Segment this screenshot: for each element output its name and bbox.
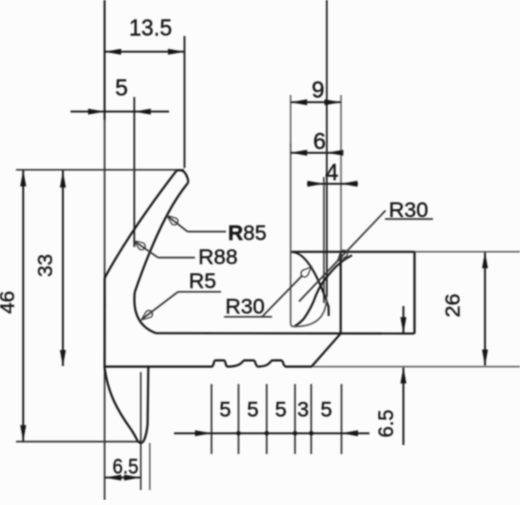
svg-text:6.5: 6.5 [375, 410, 398, 438]
svg-text:5: 5 [321, 399, 333, 422]
svg-text:33: 33 [34, 254, 57, 277]
svg-text:4: 4 [326, 159, 339, 185]
svg-text:3: 3 [297, 399, 309, 422]
svg-text:5: 5 [115, 75, 128, 101]
svg-text:46: 46 [0, 291, 19, 314]
svg-text:9: 9 [312, 77, 325, 103]
svg-text:5: 5 [275, 399, 287, 422]
svg-text:26: 26 [442, 294, 465, 318]
svg-text:5: 5 [219, 399, 231, 422]
svg-text:6: 6 [313, 128, 326, 154]
svg-text:R30: R30 [389, 198, 428, 222]
svg-text:6.5: 6.5 [113, 456, 139, 479]
svg-text:13.5: 13.5 [129, 15, 172, 41]
svg-text:R88: R88 [198, 245, 237, 269]
svg-text:R30: R30 [225, 295, 264, 319]
svg-text:R85: R85 [228, 222, 267, 245]
svg-text:R5: R5 [189, 269, 217, 293]
svg-text:5: 5 [247, 399, 259, 422]
